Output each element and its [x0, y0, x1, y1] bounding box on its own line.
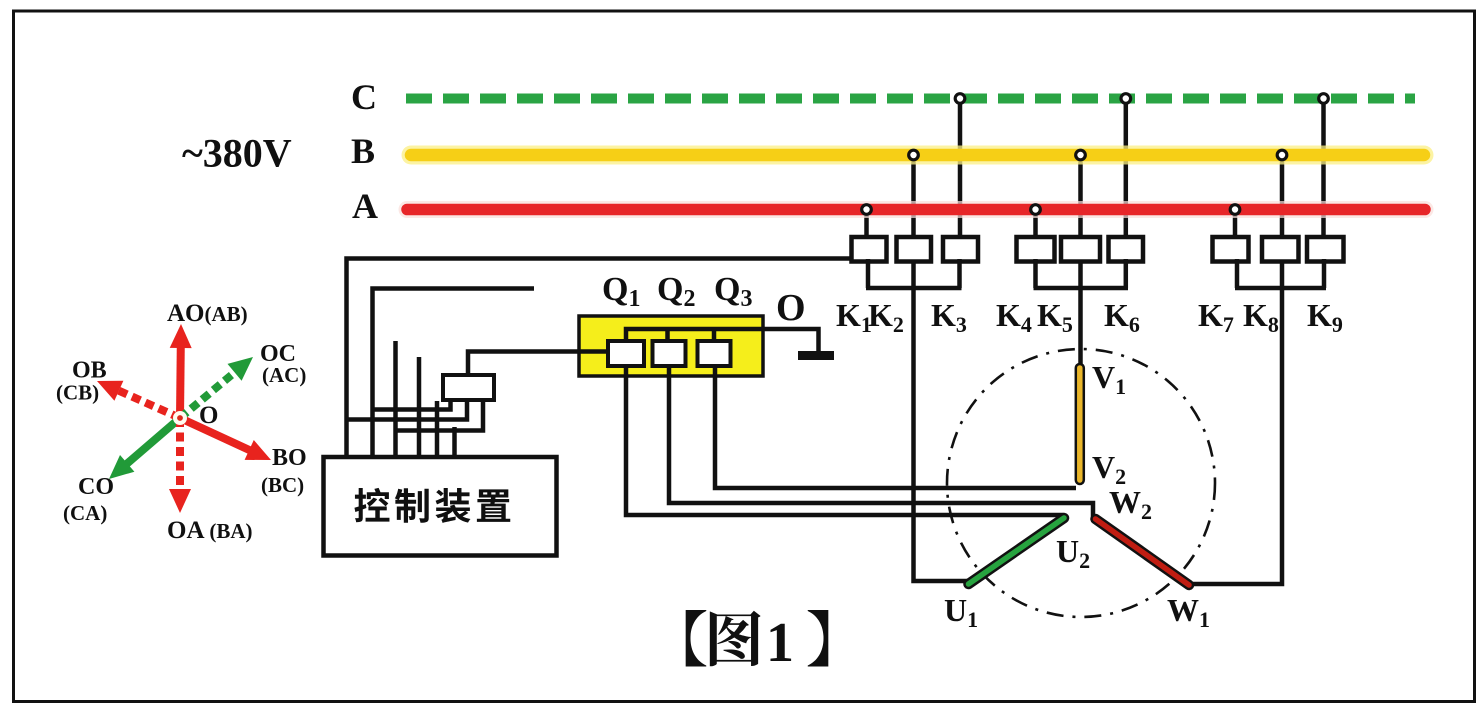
phase line C (green dashed bus) [406, 94, 1415, 104]
node circle K7 tap [1230, 205, 1240, 215]
wire control stub 2 [373, 289, 535, 458]
wire group1 bottom bus [866, 259, 871, 288]
contact Q2 body [653, 341, 686, 366]
switch K8 body [1262, 237, 1299, 262]
svg-text:CO: CO [78, 474, 114, 500]
phasor CO(CA) solid green [124, 418, 180, 466]
winding U (green bar) [969, 518, 1065, 584]
node circle K2 tap [909, 150, 919, 160]
svg-text:K3: K3 [931, 297, 967, 337]
svg-text:Q1: Q1 [602, 271, 640, 312]
node circle K5 tap [1076, 150, 1086, 160]
control device box [324, 457, 557, 556]
node circle K6 tap [1121, 94, 1131, 104]
svg-text:W2: W2 [1109, 484, 1152, 524]
wire Q2 to W2 [669, 366, 1093, 517]
wire control stub 5 [435, 401, 440, 457]
winding W (red bar) [1096, 519, 1190, 585]
node O center [173, 411, 187, 425]
wire group2 to V1 [1078, 261, 1083, 364]
winding V (yellow bar) [1075, 368, 1086, 480]
svg-text:K9: K9 [1307, 297, 1343, 337]
switch K7 body [1213, 237, 1249, 262]
relay box [443, 375, 494, 400]
svg-text:(AC): (AC) [262, 363, 306, 387]
wire relay pin3 [396, 398, 483, 431]
motor stator circle (dash-dot) [947, 349, 1215, 617]
switch K6 wire to bus [1124, 103, 1129, 240]
wire group3 to W1 [1191, 261, 1282, 584]
caption 【图1】 [686, 610, 707, 667]
node circle K3 tap [955, 94, 965, 104]
switch K1 body [852, 237, 887, 262]
svg-text:AO(AB): AO(AB) [167, 300, 248, 327]
phase line A (red bus) [407, 204, 1425, 216]
wire group1 to U1 [914, 261, 969, 581]
svg-text:BO: BO [272, 445, 307, 471]
wire Q3 to V2 [715, 366, 1076, 488]
svg-text:O: O [776, 287, 806, 329]
switch K9 body [1307, 237, 1344, 262]
switch K3 wire to bus [958, 103, 963, 240]
wire relay pin2 [349, 398, 468, 420]
svg-text:K2: K2 [868, 297, 904, 337]
phasor OB(CB) dashed red [115, 389, 180, 418]
svg-text:O: O [199, 402, 218, 429]
svg-text:~380V: ~380V [182, 131, 292, 176]
wire Q top bus to ground [626, 329, 819, 352]
svg-text:K4: K4 [996, 297, 1032, 337]
switch K4 wire to bus [1033, 214, 1038, 240]
svg-text:1: 1 [766, 612, 794, 674]
node circle K4 tap [1031, 205, 1041, 215]
node circle K8 tap [1277, 150, 1287, 160]
wire relay pin1 [373, 398, 451, 410]
switch K3 body [943, 237, 978, 262]
node circle K1 tap [862, 205, 872, 215]
svg-text:V2: V2 [1092, 449, 1126, 489]
svg-text:K5: K5 [1037, 297, 1073, 337]
wire control to K1 [347, 259, 852, 458]
switch K4 body [1017, 237, 1055, 262]
wire control stub 4 [417, 357, 422, 457]
phasor AO(AB) solid red up [176, 344, 185, 418]
svg-text:(BC): (BC) [261, 473, 304, 497]
svg-text:W1: W1 [1167, 592, 1210, 632]
phasor OA(BA) dashed red down [176, 418, 184, 493]
phase line B (yellow bus) [411, 149, 1424, 162]
contact Q3 body [698, 341, 731, 366]
svg-text:Q3: Q3 [714, 271, 752, 312]
switch K1 wire to bus [864, 214, 869, 240]
contactor block (yellow) [579, 316, 763, 376]
phase line B halo [411, 146, 1424, 165]
switch K2 body [897, 237, 932, 262]
ground symbol [798, 351, 834, 360]
switch K7 wire to bus [1233, 214, 1238, 240]
wire group3 bottom bus [1235, 259, 1240, 288]
svg-text:(CA): (CA) [63, 501, 107, 525]
svg-text:(CB): (CB) [56, 381, 99, 405]
svg-text:V1: V1 [1092, 359, 1126, 399]
phasor OC(AC) dashed green [180, 370, 238, 418]
svg-text:K6: K6 [1104, 297, 1140, 337]
wire Q1 to U2 [626, 366, 1064, 515]
wire control stub 6 [452, 427, 457, 457]
switch K5 body [1061, 237, 1100, 262]
contact Q1 body [608, 341, 644, 366]
switch K6 body [1109, 237, 1144, 262]
phasor diagram [56, 300, 307, 544]
wire group2 bottom bus [1033, 259, 1038, 288]
switch K8 wire to bus [1280, 159, 1285, 239]
svg-text:K8: K8 [1243, 297, 1279, 337]
svg-text:OA (BA): OA (BA) [167, 517, 253, 544]
svg-text:A: A [352, 186, 378, 226]
svg-text:K1: K1 [836, 297, 872, 337]
svg-text:Q2: Q2 [657, 271, 695, 312]
wire relay to Q1 [468, 352, 608, 376]
svg-text:K7: K7 [1198, 297, 1234, 337]
svg-text:U2: U2 [1056, 533, 1090, 573]
wire control stub 3 [393, 341, 398, 457]
svg-text:U1: U1 [944, 592, 978, 632]
phasor BO(BC) solid red [180, 418, 253, 452]
switch K9 wire to bus [1321, 103, 1326, 240]
label 控制装置 (control device) [354, 488, 389, 522]
svg-text:C: C [351, 77, 377, 117]
svg-text:B: B [351, 131, 375, 171]
switch K5 wire to bus [1078, 159, 1083, 239]
node circle K9 tap [1319, 94, 1329, 104]
switch K2 wire to bus [911, 159, 916, 239]
phase line A halo [407, 201, 1425, 218]
